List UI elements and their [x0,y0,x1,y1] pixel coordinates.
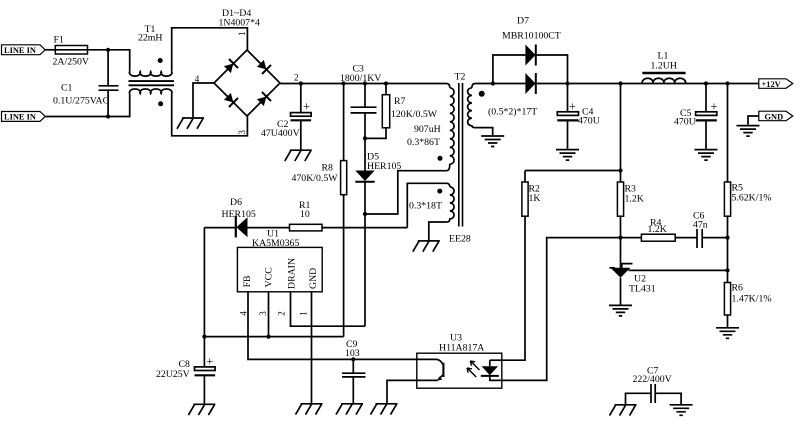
svg-text:HER105: HER105 [222,209,256,220]
transformer T1 (common-mode choke) [129,24,175,107]
svg-text:TL431: TL431 [629,284,656,295]
svg-text:1.2K: 1.2K [625,194,644,205]
node C9 junction [351,357,355,361]
svg-text:HER105: HER105 [367,161,401,172]
svg-text:120K/0.5W: 120K/0.5W [391,109,438,120]
svg-text:+: + [303,99,310,113]
resistor R5 [724,84,771,271]
ground (C7 right, earth) [670,405,693,416]
diode D5 [355,138,401,326]
svg-text:F1: F1 [54,35,64,46]
svg-text:LINE IN: LINE IN [4,113,36,122]
wire D7 upper branch [493,55,568,84]
node R5 rail [725,81,729,85]
svg-text:GND: GND [308,268,319,289]
capacitor C3 [340,64,381,139]
diode D2 (bridge top-right) [256,59,271,74]
node junction C1 bottom [106,114,110,118]
wire flag2 to T1 bottom [45,94,130,117]
svg-text:4: 4 [239,311,249,316]
ground (C9, chassis) [336,404,363,415]
transformer T2 [407,72,537,245]
resistor R6 [724,270,771,327]
svg-text:1: 1 [237,31,247,36]
svg-text:D6: D6 [230,197,242,208]
capacitor C2 [261,84,311,150]
svg-text:1: 1 [299,311,309,316]
svg-text:1.47K/1%: 1.47K/1% [732,294,772,305]
svg-text:22mH: 22mH [138,33,163,44]
svg-text:5.62K/1%: 5.62K/1% [732,193,772,204]
IC U1 KA5M0365 [237,229,322,316]
svg-text:2: 2 [277,311,287,316]
wire aux top to R1 line [407,183,450,227]
node U2 ref / R6 junction [725,268,729,272]
svg-text:1K: 1K [529,193,541,204]
wire D6 left to C8/VCC [203,228,205,337]
node R7 rail [384,81,388,85]
svg-text:GND: GND [765,112,784,121]
wire R2 bottom to opto anode [502,216,525,360]
svg-text:R6: R6 [732,283,744,294]
wire GND flag to ground [748,116,759,125]
diode D1 (bridge top-left) [223,59,238,74]
svg-text:KA5M0365: KA5M0365 [252,238,299,249]
resistor R2 [522,182,541,216]
svg-text:R8: R8 [322,162,334,173]
svg-text:0.3*86T: 0.3*86T [407,137,440,148]
diode D7 lower [525,73,535,94]
resistor R7 [365,84,438,139]
svg-text:470U: 470U [674,117,696,128]
node D7 branch left [491,81,495,85]
node drain/primary junction [363,212,367,216]
svg-text:47U400V: 47U400V [261,128,300,139]
node junction F1/C1 [106,48,110,52]
ground (C2, chassis) [285,150,312,161]
svg-text:0.3*18T: 0.3*18T [409,201,442,212]
ground (C8, chassis) [188,404,215,415]
svg-text:47n: 47n [693,220,708,231]
diode D7 upper [502,16,561,66]
svg-text:VCC: VCC [264,267,275,287]
wire flag1 to fuse [45,49,55,51]
diode D3 (bridge bottom-left) [223,92,238,107]
node R8 rail [342,81,346,85]
capacitor C1 [53,50,119,117]
capacitor C6 [693,211,728,249]
ground (C7 left, chassis) [610,405,637,416]
ground (U1 GND, chassis) [296,404,323,415]
wire secondary bottom to ground [475,128,493,136]
svg-text:C1: C1 [61,83,73,94]
resistor R4 [621,217,698,241]
svg-text:22U25V: 22U25V [156,369,190,380]
bridge rectifier D1-D4 [195,8,299,135]
wire drain node to primary bottom [365,171,447,214]
svg-text:222/400V: 222/400V [633,374,672,385]
node R3/R4/U2 junction [618,236,622,240]
node C2 rail [299,81,303,85]
svg-text:+12V: +12V [762,80,781,89]
svg-text:3: 3 [258,311,268,316]
svg-text:+: + [569,99,576,113]
connector LINE IN (top) [2,45,46,55]
resistor R8 [292,84,347,337]
connector +12V [759,79,793,89]
svg-text:1800/1KV: 1800/1KV [340,73,381,84]
ground (opto emitter, chassis) [371,404,398,415]
node C8/VCC junction [202,335,206,339]
diode D4 (bridge bottom-right) [256,92,271,107]
ground (aux winding, chassis) [413,241,440,252]
wire opto emitter to ground [387,380,417,403]
wire VCC line [204,336,343,338]
capacitor C4 [557,84,599,149]
node VCC pin [266,335,270,339]
capacitor C8 [156,337,215,404]
svg-text:R7: R7 [394,96,406,107]
fuse F1 [53,35,89,68]
wire junction to opto cathode riser [502,238,621,381]
svg-text:2: 2 [294,72,299,82]
node C4 rail [565,81,569,85]
node C5 rail [704,81,708,85]
svg-text:H11A817A: H11A817A [439,342,484,353]
svg-text:1N4007*4: 1N4007*4 [219,18,260,29]
svg-text:DRAIN: DRAIN [287,258,298,289]
ground (R6, earth) [716,328,739,339]
diode D6 [204,197,289,238]
wire R2 top line [525,171,621,183]
connector GND [759,111,793,121]
wire aux bottom to ground [429,222,447,240]
svg-text:+: + [711,99,718,113]
svg-text:T2: T2 [455,72,466,83]
wire primary rail pin2 to T2 [280,84,450,88]
node C6/R5 junction [725,236,729,240]
svg-text:FB: FB [242,275,253,287]
svg-text:(0.5*2)*17T: (0.5*2)*17T [488,107,537,118]
wire bridge pin4 to ground [193,83,214,117]
wire fuse to T1 top [88,50,130,72]
inductor L1 [642,50,685,83]
svg-text:MBR10100CT: MBR10100CT [502,31,561,42]
wire T1 bottom to bridge pin3 [172,94,248,136]
svg-text:10: 10 [300,209,310,220]
node C3/R7 bottom [363,136,367,140]
node R3 rail [618,81,622,85]
capacitor C7 [626,366,682,405]
wire pin3 VCC [268,292,270,337]
resistor R1 [290,200,408,231]
optocoupler U3 H11A817A [417,333,502,389]
svg-text:0.1U/275VAC: 0.1U/275VAC [53,96,109,107]
node R2 line on R3 vertical [618,168,622,172]
svg-text:EE28: EE28 [449,234,471,245]
svg-text:470K/0.5W: 470K/0.5W [292,173,339,184]
capacitor C9 [342,339,366,403]
svg-text:D7: D7 [517,16,529,27]
svg-text:LINE IN: LINE IN [4,46,36,55]
wire pin1 GND [311,292,313,403]
svg-text:907uH: 907uH [414,124,441,135]
ground (bridge pin4, chassis) [177,118,204,129]
capacitor C5 [674,84,718,149]
wire pin4 FB [248,292,417,360]
connector LINE IN (bottom) [2,112,46,122]
svg-text:470U: 470U [578,116,600,127]
svg-text:1.2K: 1.2K [648,224,667,235]
svg-text:2A/250V: 2A/250V [53,57,89,68]
shunt regulator U2 TL431 [609,238,727,305]
ground (secondary, earth) [481,136,504,147]
ground (GND flag, earth) [737,126,760,137]
svg-text:3: 3 [237,130,247,135]
ground (C4, earth) [556,150,579,161]
ground (C5, earth) [695,150,718,161]
node C3 rail [363,81,367,85]
resistor R3 [617,84,643,238]
ground (U2, earth) [609,305,632,316]
svg-text:103: 103 [345,348,360,359]
svg-text:+: + [206,354,213,368]
wire T1 top to bridge pin1 [172,28,248,72]
wire pin2 DRAIN [291,292,366,326]
svg-text:1.2UH: 1.2UH [651,60,677,71]
wire secondary rail [472,84,759,88]
